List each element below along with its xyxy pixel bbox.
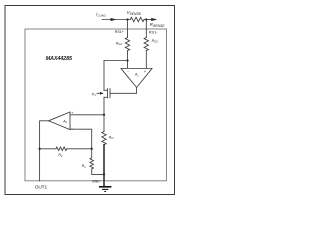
node A2 out / R2 (38, 148, 40, 150)
svg-text:GND: GND (92, 179, 100, 183)
svg-text:RSENSE: RSENSE (150, 22, 165, 28)
resistor R2 (56, 147, 67, 151)
wire A2 output (40, 121, 49, 181)
wire RS- tap (145, 20, 147, 38)
wire top rail right segment (144, 19, 151, 21)
wire feedback left segment (40, 148, 56, 150)
wire P1 drain vertical (103, 97, 105, 131)
wire top rail left segment (102, 19, 130, 21)
wire R1 bottom to ground rail (92, 169, 104, 174)
wire RG1 to A1 minus (127, 51, 129, 69)
svg-text:VSENSE: VSENSE (127, 10, 142, 16)
wire RS+ tap (127, 20, 129, 38)
svg-text:A1: A1 (134, 73, 139, 78)
resistor R1 (90, 149, 94, 169)
svg-text:ILOAD: ILOAD (96, 12, 106, 18)
svg-text:OUT1: OUT1 (35, 185, 48, 191)
IC box MAX44285 (25, 29, 167, 181)
outer frame (5, 6, 175, 195)
junction node dots (38, 18, 147, 175)
node RS- top (145, 18, 147, 20)
wire P1 source vertical (103, 61, 105, 91)
transistor P1 body (104, 89, 110, 98)
resistor RO (102, 132, 106, 145)
svg-text:RS1-: RS1- (149, 30, 158, 34)
op-amp A2 (49, 112, 70, 130)
resistor RSENSE (130, 17, 144, 21)
node P1 source / RG1 (126, 59, 128, 61)
arrow ILOAD current direction (111, 18, 117, 21)
wire A1 output to gate (110, 88, 137, 94)
wire drain to A2 plus (70, 114, 104, 116)
wire ground rail (103, 145, 105, 187)
node P1 drain / RO (103, 114, 105, 116)
svg-text:A2: A2 (62, 119, 67, 124)
wire A2 minus to feedback node (70, 129, 92, 149)
arrow load direction right (151, 18, 157, 21)
ground symbol (99, 187, 112, 192)
resistor RG1 (125, 38, 129, 51)
wire feedback right segment (67, 148, 92, 150)
arrow P1 body (100, 92, 104, 95)
svg-text:MAX44285: MAX44285 (46, 56, 73, 62)
node RS+ top (126, 18, 128, 20)
op-amp A1 (121, 69, 152, 88)
svg-text:RG2: RG2 (152, 39, 159, 44)
wire node to P1 source (104, 60, 128, 62)
node R1 / ground rail (103, 173, 105, 175)
resistor RG2 (144, 38, 148, 51)
wire RG2 to A1 plus (145, 51, 147, 69)
svg-text:RS1+: RS1+ (115, 30, 124, 34)
node R2 / R1 / A2 minus (91, 148, 93, 150)
